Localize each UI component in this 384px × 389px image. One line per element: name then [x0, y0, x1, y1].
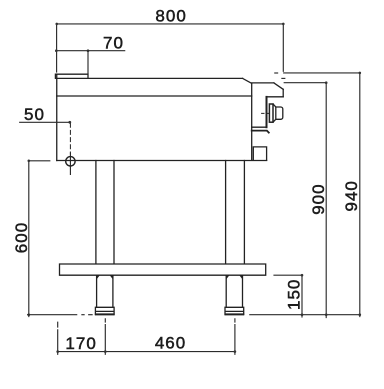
plate front edge vertical: [282, 89, 284, 97]
left foot cap: [95, 307, 114, 314]
dim 940 ticks: [359, 72, 362, 75]
dim 940 line: [359, 73, 361, 317]
dim 800 ext right: [282, 24, 284, 71]
dim 600 ticks: [28, 160, 31, 163]
body top line: [57, 77, 243, 79]
body bottom line: [57, 160, 267, 162]
right foot gussets: [226, 276, 242, 279]
top right chamfer: [243, 78, 252, 83]
panel bottom line: [252, 126, 267, 128]
dim 150 line: [301, 275, 303, 317]
right leg: [226, 161, 245, 264]
dim 800 tick left: [55, 23, 58, 26]
right foot base: [226, 313, 244, 315]
dim 70 ext right: [87, 51, 89, 74]
gas inlet circle: [66, 157, 75, 166]
svg-text:170: 170: [65, 334, 96, 353]
right foot stem: [226, 275, 242, 307]
dim 70 line: [56, 50, 124, 52]
dim 900 line: [325, 83, 327, 318]
svg-text:900: 900: [309, 183, 328, 214]
dim 800 ext left: [56, 24, 58, 72]
dim 170-460 ticks: [56, 350, 59, 353]
svg-text:460: 460: [155, 334, 186, 353]
shelf: [60, 264, 266, 275]
dim 50 end dot: [68, 121, 71, 124]
dim 70 ticks: [55, 49, 58, 52]
dim 150 ticks: [301, 274, 304, 277]
left leg: [96, 161, 114, 264]
gas manifold box: [253, 147, 266, 160]
knob taper bottom: [273, 119, 276, 122]
plate front nose diagonal: [274, 83, 283, 89]
dim 150 ext top: [274, 274, 302, 276]
floor line dash: [89, 314, 92, 316]
floor line left: [28, 314, 77, 316]
dim 800 tick right: [282, 23, 285, 26]
dim mid ext (left foot centre): [104, 319, 106, 355]
left foot gussets: [97, 276, 113, 279]
body mid line: [57, 95, 252, 97]
carcass front vertical: [251, 83, 253, 160]
left foot stem: [97, 275, 113, 307]
dim 800 line: [57, 23, 284, 25]
dim 900 ext: [284, 82, 326, 84]
floor line dot: [82, 314, 84, 316]
plate underside overhang: [267, 96, 284, 98]
knob taper top: [273, 104, 276, 107]
dim 50 line: [20, 121, 70, 123]
knob centerline dashes: [262, 112, 270, 114]
dim 900 ticks: [325, 81, 328, 84]
back lip (rear splash rail): [55, 74, 88, 78]
dim 940 ext: [284, 72, 360, 74]
svg-text:70: 70: [103, 33, 124, 52]
dim 600 ext top: [29, 160, 50, 162]
dim 170 ext left: [57, 322, 59, 354]
svg-text:800: 800: [155, 7, 186, 26]
knob flange: [269, 104, 273, 122]
gas inlet centerline vertical: [69, 153, 71, 174]
svg-text:940: 940: [342, 180, 361, 211]
floor line right: [250, 314, 360, 316]
svg-text:50: 50: [24, 105, 45, 124]
body back edge: [56, 74, 58, 160]
panel drip lip: [252, 131, 269, 133]
plate top front section: [252, 82, 274, 84]
left foot base: [96, 313, 114, 315]
dim 170-460 line: [58, 351, 235, 353]
gas inlet centerline dashes above: [69, 123, 71, 153]
svg-text:600: 600: [12, 222, 31, 253]
right foot cap: [225, 307, 244, 314]
control panel face: [266, 97, 268, 127]
dim right ext (right foot centre): [234, 319, 236, 355]
svg-text:150: 150: [284, 279, 303, 310]
dim 940 ext dash: [275, 72, 278, 74]
dim 900 ext dash: [282, 77, 285, 79]
knob cap: [276, 107, 283, 119]
dim 600 line: [28, 161, 30, 317]
